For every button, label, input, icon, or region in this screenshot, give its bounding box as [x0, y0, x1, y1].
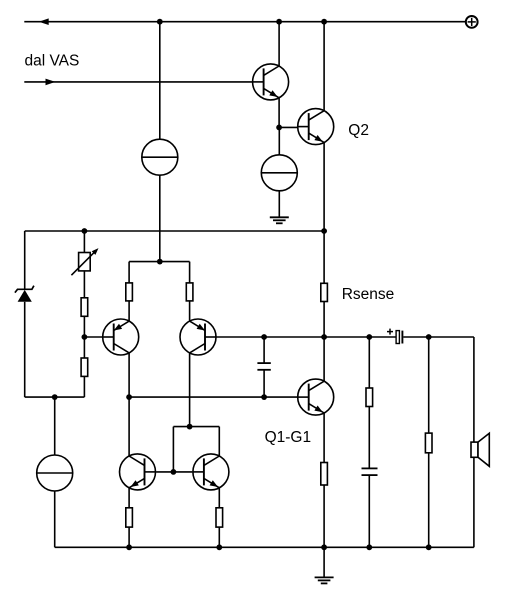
wire diff base node to R2: [83, 337, 85, 358]
wire rail to driver collector: [278, 22, 280, 66]
wire C3 to bottom rail: [368, 475, 370, 547]
wire R1 to diff base node: [83, 316, 85, 337]
junction rail / driver collector: [276, 19, 282, 25]
wire left diff base: [84, 336, 102, 338]
wire driver emitter to Q2 base node: [278, 98, 280, 128]
trimmer RV1: [71, 248, 98, 275]
wire Q1 emitter to R6: [323, 413, 325, 463]
wire I2 to ground: [278, 191, 280, 217]
wire R8 to bottom rail: [218, 527, 220, 547]
transistor driver NPN: [253, 64, 289, 100]
ground below I2: [270, 217, 289, 223]
junction C1 / Q1 base wire: [261, 394, 267, 400]
junction right PNP collector / diode link: [187, 424, 193, 430]
junction bottom-left / current source I3: [52, 394, 58, 400]
junction Q2 emitter line / bias network: [321, 228, 327, 234]
transistor Q1-G1: [298, 379, 334, 415]
wire R3 to left PNP emitter: [128, 301, 130, 322]
wire Q1-G1 base line: [129, 396, 298, 398]
wire I3 top: [54, 397, 56, 455]
capacitor C1: [257, 363, 270, 370]
wire bottom rail to ground: [323, 547, 325, 577]
junction R8 / bottom rail: [216, 544, 222, 550]
arrow on positive rail (pointing left): [39, 18, 49, 25]
wire load node to R9: [428, 337, 430, 433]
junction rail / I1 branch: [157, 19, 163, 25]
wire output node (right PNP base to output): [216, 336, 396, 338]
resistor R4 right emitter: [186, 283, 193, 301]
wire R9 to bottom rail: [428, 453, 430, 548]
resistor R8: [216, 508, 223, 527]
wire right mirror emitter to R8: [218, 488, 220, 508]
svg-text:dal VAS: dal VAS: [25, 52, 80, 69]
resistor R7: [126, 508, 133, 527]
wire R7 to bottom rail: [128, 527, 130, 547]
wire Q2 collector to rail: [323, 22, 325, 111]
junction output / compensation cap: [261, 334, 267, 340]
wire zener branch to trimmer branch bottom: [25, 396, 85, 398]
svg-text:Rsense: Rsense: [342, 286, 395, 303]
wire mirror bases: [156, 471, 192, 473]
wire Q1 base wire to left mirror collector: [128, 397, 130, 456]
wire R4 to right PNP emitter: [189, 301, 191, 322]
junction rail / Q2 collector: [321, 19, 327, 25]
junction mirror bases: [171, 469, 177, 475]
wire Rsense to Q1 collector: [323, 302, 325, 382]
wire trimmer to R1: [83, 271, 85, 298]
junction C3 / bottom rail: [366, 544, 372, 550]
wire dal VAS input to driver base: [24, 81, 252, 83]
junction R9 / bottom rail: [426, 544, 432, 550]
transistor right NPN of mirror: [193, 454, 229, 490]
transistor Q2: [298, 109, 334, 145]
wire R6 to bottom rail: [323, 485, 325, 547]
junction bias wire / trimmer branch: [82, 228, 88, 234]
wire I3 to bottom rail: [54, 491, 56, 547]
wire diff pair emitters top: [129, 261, 190, 263]
resistor R5: [366, 388, 373, 407]
transistor left NPN of mirror: [120, 454, 156, 490]
junction diff tail: [157, 259, 163, 265]
current source I1: [142, 139, 178, 175]
junction output / R5 branch: [366, 334, 372, 340]
positive supply terminal: [466, 16, 478, 28]
resistor R3 left emitter: [126, 283, 133, 301]
wire Q2 base: [279, 126, 298, 128]
wire output to R5: [368, 337, 370, 388]
wire zener anode down: [24, 302, 26, 397]
wire output to C1: [263, 337, 265, 363]
wire bias wire down to zener: [24, 231, 26, 289]
current source I2: [261, 155, 297, 191]
resistor Rsense: [321, 283, 328, 301]
wire right PNP collector down: [189, 353, 191, 427]
wire rail to current source I1: [159, 22, 161, 140]
capacitor C2 electrolytic (+ output coupling): [387, 329, 402, 344]
wire Q2 base node to I2: [278, 127, 280, 154]
current source I3: [37, 455, 73, 491]
transistor left PNP of diff pair: [103, 319, 139, 355]
wire bias network top: [25, 230, 324, 232]
junction driver emitter / Q2 base / I2: [276, 125, 282, 131]
wire mirror base to diode link: [172, 427, 174, 472]
wire I1 to diff pair tail: [159, 175, 161, 261]
wire C2 to load node: [403, 336, 474, 338]
wire bias wire to trimmer: [83, 231, 85, 253]
wire positive supply rail: [24, 21, 466, 23]
wire Q2 emitter down main vertical: [323, 143, 325, 284]
transistor right PNP of diff pair: [180, 319, 216, 355]
resistor R1: [81, 298, 88, 317]
junction output / Rsense bottom: [321, 334, 327, 340]
junction bottom rail / ground: [321, 544, 327, 550]
resistor R2: [81, 358, 88, 376]
wire R5 to C3: [368, 407, 370, 469]
wire left PNP collector down: [128, 353, 130, 397]
wire load node down to speaker: [473, 337, 475, 442]
wire right emitter branch: [189, 262, 191, 283]
junction left collector / Q1 base wire: [126, 394, 132, 400]
ground main: [315, 577, 334, 583]
resistor R6 Q1 emitter: [321, 463, 328, 486]
svg-text:Q2: Q2: [348, 122, 369, 139]
arrow on dal VAS wire (pointing right): [46, 79, 56, 86]
junction trimmer chain / left diff base: [82, 334, 88, 340]
svg-text:Q1-G1: Q1-G1: [265, 429, 312, 446]
zener diode D1: [15, 286, 34, 302]
resistor R9: [425, 433, 432, 453]
capacitor C3: [362, 468, 378, 475]
wire left mirror emitter to R7: [128, 488, 130, 508]
speaker LS1: [471, 433, 489, 466]
wire bottom rail: [55, 546, 474, 548]
wire left emitter branch: [128, 262, 130, 283]
junction load node / R9: [426, 334, 432, 340]
wire R2 to bottom-left wire: [83, 376, 85, 397]
wire diode link to right mirror collector: [218, 427, 220, 456]
wire speaker to bottom rail: [473, 457, 475, 547]
wire C1 to Q1 base wire: [263, 370, 265, 397]
wire diode link horizontal: [173, 426, 219, 428]
junction R7 / bottom rail: [126, 544, 132, 550]
